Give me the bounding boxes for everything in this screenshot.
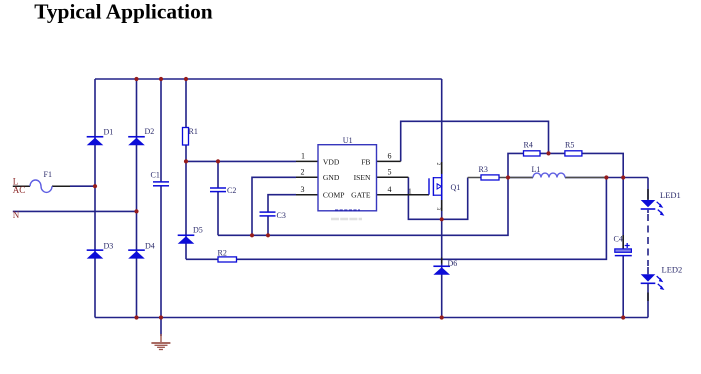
- svg-text:3: 3: [301, 185, 305, 194]
- svg-text:LED1: LED1: [660, 190, 681, 200]
- svg-text:R2: R2: [218, 249, 227, 258]
- svg-text:C4: C4: [614, 235, 623, 244]
- svg-text:LED2: LED2: [662, 265, 683, 275]
- svg-text:F1: F1: [44, 170, 52, 179]
- svg-text:Typical Application: Typical Application: [34, 0, 213, 24]
- svg-text:D4: D4: [145, 242, 155, 251]
- svg-text:1: 1: [301, 152, 305, 161]
- svg-text:1: 1: [408, 187, 412, 196]
- svg-text:D5: D5: [193, 226, 203, 235]
- svg-text:U1: U1: [343, 136, 353, 145]
- svg-text:R5: R5: [565, 141, 574, 150]
- svg-text:GND: GND: [323, 173, 340, 182]
- svg-text:6: 6: [388, 152, 392, 161]
- svg-text:C3: C3: [277, 211, 286, 220]
- svg-text:R1: R1: [189, 127, 198, 136]
- svg-text:N: N: [13, 210, 20, 220]
- svg-text:FB: FB: [361, 157, 370, 166]
- svg-text:AC: AC: [13, 185, 26, 195]
- svg-text:D6: D6: [448, 259, 458, 268]
- svg-text:R3: R3: [479, 165, 488, 174]
- svg-text:2: 2: [301, 168, 305, 177]
- svg-text:D1: D1: [104, 128, 114, 137]
- svg-text:D2: D2: [145, 127, 155, 136]
- svg-text:L1: L1: [532, 165, 541, 174]
- svg-text:VDD: VDD: [323, 157, 340, 166]
- svg-text:4: 4: [388, 185, 392, 194]
- svg-text:5: 5: [388, 168, 392, 177]
- svg-text:2: 2: [435, 163, 441, 166]
- svg-text:C1: C1: [151, 171, 160, 180]
- svg-text:GATE: GATE: [351, 190, 371, 199]
- svg-text:D3: D3: [104, 242, 114, 251]
- svg-text:Q1: Q1: [451, 183, 461, 192]
- svg-text:COMP: COMP: [323, 190, 345, 199]
- svg-text:R4: R4: [524, 141, 533, 150]
- svg-text:C2: C2: [227, 186, 236, 195]
- svg-text:3: 3: [435, 208, 441, 211]
- svg-text:ISEN: ISEN: [354, 173, 371, 182]
